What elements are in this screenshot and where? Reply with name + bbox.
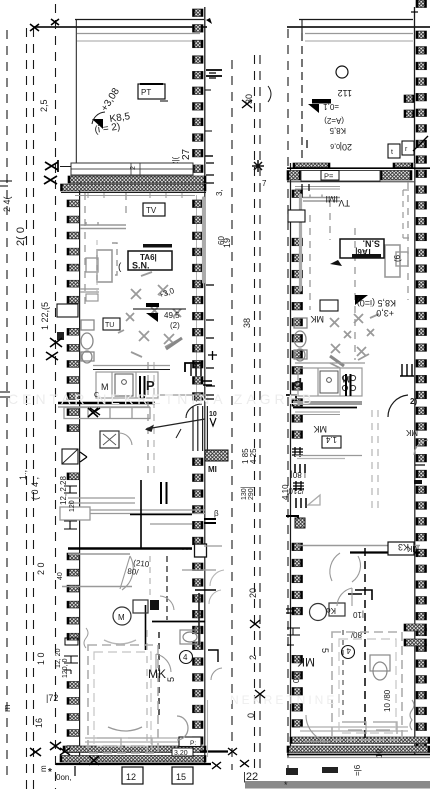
L curtain marks: [84, 628, 88, 648]
svg-text:=0,1: =0,1: [323, 102, 339, 111]
right dark mark: [414, 480, 422, 484]
L kitchen top line: [93, 365, 170, 367]
L east wall inner gray: [196, 195, 198, 402]
svg-text:PT: PT: [141, 88, 151, 97]
L top wall line: [60, 166, 71, 168]
svg-text:0: 0: [246, 713, 256, 718]
svg-text:2: 2: [130, 166, 137, 170]
L washing machine: [100, 431, 119, 448]
svg-text:1,0: 1,0: [291, 672, 300, 684]
svg-text:120: 120: [69, 500, 76, 512]
svg-text:2( 0: 2( 0: [15, 227, 27, 246]
L hall vline dark: [140, 480, 142, 548]
R stairs hash 2: [293, 481, 304, 491]
R stairs treads 1: [295, 464, 305, 473]
mid paren: [268, 86, 271, 102]
R west wall bracket: [286, 395, 296, 401]
L hall door bars: [161, 482, 167, 504]
svg-text:MK: MK: [311, 314, 325, 324]
svg-text:+3,0: +3,0: [376, 308, 394, 318]
east eq thick: [204, 519, 216, 523]
R bed dash dark: [342, 630, 344, 716]
right tick 465: [415, 464, 425, 466]
R top box t1: [388, 144, 400, 158]
svg-text:2,5: 2,5: [39, 99, 49, 112]
L bed outline: [88, 645, 158, 753]
terrace R bar: [312, 99, 331, 104]
terrace L tick 2: [206, 18, 212, 24]
terrace R inner blocks: [404, 95, 415, 118]
R bath corner: [348, 590, 372, 600]
terrace L top line: [75, 19, 204, 21]
L partition kitchen dark: [58, 402, 155, 404]
svg-text:=|6: =|6: [353, 764, 362, 776]
svg-text:15: 15: [176, 772, 186, 782]
L kitchen lower X: [88, 408, 98, 417]
svg-text:10: 10: [375, 749, 384, 758]
L partition bath: [152, 621, 205, 623]
svg-text:MK: MK: [314, 424, 328, 434]
L tv cabinet: [86, 294, 98, 301]
L interior dash 3: [147, 362, 149, 478]
L side table: [86, 258, 98, 272]
east ticks upper: [206, 163, 215, 386]
L kitchen dark bars: [140, 376, 145, 398]
R east wall wide blocks: [404, 624, 427, 646]
bottom blob 1: [286, 768, 298, 775]
bottom box 15: [172, 767, 193, 784]
R dining diag thick: [330, 356, 344, 366]
terrace R gray line 1: [305, 33, 413, 35]
L wc black stub: [57, 332, 64, 340]
svg-text:20|: 20|: [340, 142, 352, 152]
svg-text:4: 4: [346, 646, 351, 655]
R room arrow: [330, 260, 342, 266]
L kitchen sink: [115, 374, 133, 396]
L dining diag thick: [166, 338, 182, 349]
L west wall door marks hall: [63, 486, 77, 529]
svg-text:m: m: [2, 705, 12, 713]
terrace R tick: [411, 11, 418, 13]
L east wall dark line low: [195, 589, 216, 591]
dim line mid2a: [254, 55, 256, 775]
mid arrow 30: [242, 100, 252, 108]
L kitchen counter: [96, 372, 158, 398]
svg-text:12: 12: [126, 772, 136, 782]
L wc fixtures: [81, 320, 94, 363]
L sofa dashed outline: [112, 243, 117, 275]
L bed pillows: [97, 738, 152, 750]
L bedroom chair arc: [177, 716, 188, 740]
svg-text:2 4(: 2 4(: [2, 196, 12, 212]
svg-text:IMI: IMI: [326, 194, 339, 204]
L door frame bars: [191, 364, 201, 376]
R stairs treads 2: [296, 498, 306, 508]
L door label: [127, 558, 150, 578]
L radiator right: [198, 593, 200, 645]
L stairs curve: [186, 404, 202, 418]
east arc 592: [209, 590, 221, 604]
svg-text:1 22,(5: 1 22,(5: [40, 302, 50, 330]
east tick plus: [208, 351, 217, 360]
L west wall face line: [79, 176, 81, 763]
svg-text:120, 0: 120, 0: [62, 658, 69, 678]
L hall door swing: [120, 556, 133, 590]
east bracket 650: [208, 650, 218, 662]
svg-text:2): 2): [410, 397, 417, 406]
R thick bar: [352, 254, 381, 258]
svg-text:1.4: 1.4: [325, 435, 337, 444]
svg-text:K8,5: K8,5: [329, 126, 346, 135]
svg-text:*: *: [284, 780, 288, 789]
L stairs arrow head: [145, 425, 154, 433]
svg-text:4: 4: [183, 653, 188, 662]
svg-text:4,10: 4,10: [281, 484, 290, 500]
L partition hall mid dark: [130, 514, 192, 516]
svg-text:12, 2,28: 12, 2,28: [59, 476, 68, 505]
svg-text:TU: TU: [105, 322, 114, 329]
L hall gray lines wide: [68, 510, 205, 514]
dim line mid1: [231, 60, 233, 770]
svg-text:m: m: [39, 765, 48, 772]
svg-text:(6: (6: [393, 254, 402, 262]
R wc fixtures: [294, 318, 307, 361]
L dining chairs: [118, 272, 181, 357]
R partition hall dark: [350, 551, 420, 553]
L bath2 fixture right: [180, 630, 200, 644]
R bed pillows: [342, 722, 397, 734]
svg-text:10 /80: 10 /80: [383, 689, 392, 712]
L window band midline: [71, 168, 193, 170]
svg-text:*: *: [48, 767, 52, 778]
L east wall face line: [204, 176, 206, 763]
R top wall bottom line: [287, 181, 414, 183]
R bath circle: [310, 604, 327, 621]
L table line: [133, 308, 186, 310]
L bed head curve: [104, 640, 136, 644]
L thick bar: [143, 244, 172, 248]
L bottom window band: [85, 738, 200, 742]
L rug lines: [80, 289, 99, 292]
L dining texts: [158, 286, 181, 330]
L dash stub: [96, 240, 98, 300]
R kitchen stove circles: [342, 375, 355, 390]
L west wall window marks bed: [64, 638, 78, 674]
terrace R gray line 2: [305, 40, 413, 42]
R partition kitchen gray2: [295, 412, 340, 415]
svg-text:20: 20: [248, 588, 258, 598]
R top tick: [306, 140, 308, 148]
R interior dash a: [309, 215, 311, 310]
R interior dash d: [407, 182, 409, 300]
L bedroom door arc: [156, 654, 171, 673]
svg-text:Ko: Ko: [326, 606, 336, 615]
L bath2 door hinge: [150, 600, 159, 610]
terrace L east wall blocks: [193, 9, 204, 173]
R top P= box: [321, 171, 339, 181]
R level wedge: [355, 295, 368, 305]
margin arrows 178: [44, 176, 57, 184]
dim line C: [55, 4, 57, 789]
R terrace door arc: [304, 715, 330, 742]
R top wall hatch B1: [287, 171, 301, 181]
svg-text:P=: P=: [324, 172, 334, 181]
R window sill ticks: [302, 184, 309, 191]
svg-text:| 80|: | 80|: [291, 470, 306, 479]
svg-text:38: 38: [242, 318, 252, 328]
terrace R west edge dashed: [301, 33, 303, 160]
R east wall face line: [414, 163, 416, 755]
R bottom wall dark line: [287, 754, 430, 756]
L window band: [71, 163, 193, 175]
right door frame bars: [400, 364, 414, 376]
svg-text:S.N.: S.N.: [362, 239, 380, 249]
L partition hall mid gray: [150, 523, 192, 525]
L bath2 wm circle: [113, 607, 131, 625]
dim line B1: [26, 28, 28, 789]
R kitchen sink dot: [327, 378, 332, 383]
R top window band: [301, 171, 380, 182]
east tick eq: [206, 395, 214, 399]
svg-text:60: 60: [217, 236, 226, 245]
L partition hall gray: [68, 553, 130, 555]
dim line A: [6, 30, 8, 782]
R interior dash b: [329, 200, 331, 240]
R west wall marks bed: [287, 628, 300, 645]
R armchair: [385, 245, 400, 277]
bottom arrows mid: [212, 748, 249, 769]
L partition bath v: [145, 605, 147, 650]
terrace R wedge: [308, 104, 319, 113]
svg-text:M: M: [118, 613, 125, 622]
L interior dash 2: [125, 193, 127, 218]
R bottom window band: [300, 727, 408, 731]
margin tick 390: [0, 392, 10, 397]
svg-text:|72: |72: [46, 693, 58, 703]
R bottom wall hatch 2: [287, 746, 430, 753]
R kitchen sink: [320, 371, 338, 393]
terrace L tick 3: [209, 73, 216, 78]
svg-text:4 25: 4 25: [249, 448, 258, 464]
terrace R east wall line: [414, 7, 416, 163]
svg-text:112: 112: [338, 88, 352, 98]
R stairs gray tri: [308, 495, 320, 505]
L west wall blocks: [67, 200, 79, 753]
svg-text:10: 10: [209, 411, 217, 418]
L interior dash bed gray: [146, 630, 148, 752]
svg-text:NEKRETNINE: NEKRETNINE: [230, 693, 337, 707]
east gray vline: [207, 700, 209, 757]
bottom gray bar: [245, 781, 430, 789]
R top box t2: [402, 141, 414, 155]
svg-text:16: 16: [34, 718, 44, 728]
svg-text:80/: 80/: [127, 567, 140, 577]
R bath box: [329, 603, 345, 616]
L dining wedge: [146, 313, 158, 322]
R interior dash e: [371, 410, 373, 510]
bottom tick 1: [74, 766, 76, 776]
R partition kitchen grayband: [293, 401, 362, 405]
L east wall blocks: [193, 200, 204, 744]
L stairs treads: [193, 406, 207, 451]
R hall door arcs: [330, 553, 361, 582]
R west wall window box: [288, 210, 305, 222]
L bottom wall hatch 1: [63, 746, 206, 753]
svg-text:MK: MK: [297, 655, 315, 669]
svg-text:5: 5: [166, 677, 176, 682]
svg-text:CENTAR NEKRETNINA ZAGREB: CENTAR NEKRETNINA ZAGREB: [8, 391, 315, 407]
L east wall shaft dots: [182, 548, 192, 550]
svg-text:MK: MK: [405, 428, 418, 437]
R west wall pipe: [299, 195, 302, 290]
L east wall dark landing: [205, 450, 228, 461]
terrace L east wall line: [204, 7, 206, 176]
svg-text:( 0 4 ,: ( 0 4 ,: [30, 477, 40, 500]
terrace R east wall blocks: [416, 0, 427, 163]
svg-text:12, 20: 12, 20: [55, 648, 62, 668]
L hall gray lines up: [68, 498, 135, 503]
R top wall dark line: [287, 167, 430, 169]
svg-text:P: P: [293, 375, 302, 390]
mid tick 70: [206, 70, 222, 76]
east arrow down: [210, 418, 216, 426]
L armchair: [97, 250, 112, 282]
svg-text:M: M: [343, 374, 351, 384]
L east wall gray line low: [182, 569, 216, 571]
L top wall bottom line: [61, 192, 206, 194]
R sofa lines: [303, 195, 340, 202]
R door label 80210: [288, 470, 306, 495]
east gray 546: [204, 545, 222, 547]
R kitchen top line: [295, 362, 365, 364]
right dash bracket: [403, 190, 412, 238]
bottom box 12: [122, 767, 143, 784]
terrace L tick 5: [205, 89, 211, 91]
R level text: [357, 298, 396, 318]
margin cluster2: [55, 648, 69, 678]
terrace R eave line: [287, 26, 430, 28]
L circled 4: [180, 651, 193, 664]
svg-text:TV: TV: [146, 206, 157, 215]
R interior dash c: [354, 228, 356, 360]
L bath2 box: [133, 600, 148, 613]
svg-text:49,5: 49,5: [164, 311, 180, 320]
terrace L tick 1: [205, 155, 213, 157]
svg-text:(A=2): (A=2): [324, 116, 344, 125]
L bath2 arc: [160, 596, 174, 610]
right arc big: [388, 395, 408, 417]
R circled 4: [342, 646, 355, 659]
L east wall gray pipe: [202, 198, 205, 282]
svg-text:P:: P:: [190, 740, 196, 747]
terrace R circled num: [336, 66, 348, 78]
L partition kitchen gray: [58, 406, 150, 408]
L interior dash 5: [166, 556, 168, 620]
L kitchen lower row: [64, 408, 150, 419]
R bottom wall hatch 1: [290, 737, 430, 744]
L bed bench: [108, 727, 142, 731]
margin arrows mid: [46, 338, 62, 360]
svg-text:|22: |22: [243, 771, 258, 783]
svg-text:40: 40: [57, 572, 64, 580]
svg-text:0on,: 0on,: [56, 773, 72, 782]
svg-text:2 0: 2 0: [36, 562, 46, 575]
R K3 box: [388, 542, 414, 555]
svg-text:3,: 3,: [215, 189, 224, 196]
svg-text:MK: MK: [406, 544, 419, 553]
L west wall door box: [62, 449, 87, 464]
terrace L gray line 1: [77, 33, 200, 35]
R label room box: [340, 239, 384, 259]
R partition kitchen dark: [293, 407, 357, 409]
R interior dash f: [377, 410, 379, 510]
east arc 575: [210, 570, 224, 586]
terrace L tick 4: [205, 130, 212, 132]
R window sill line: [295, 187, 340, 190]
mid cluster: [252, 160, 264, 172]
R MK box: [320, 300, 338, 311]
R curtain marks: [410, 700, 414, 730]
margin arrows low: [90, 408, 100, 415]
L partition hall dark: [68, 547, 192, 549]
R bedroom door arc: [337, 588, 352, 606]
svg-text:1.,: 1.,: [18, 470, 28, 480]
R bed outline: [332, 632, 402, 740]
svg-text:S.N.: S.N.: [132, 261, 150, 271]
L kitchen sink dot: [122, 380, 127, 385]
L bottom 320 box: [172, 748, 193, 757]
svg-text:K8,5 (i=0): K8,5 (i=0): [357, 298, 396, 308]
L wm arc: [119, 433, 132, 445]
L stairs arrow: [146, 419, 205, 429]
R hall vline: [364, 548, 366, 740]
R top wall hatch A2: [393, 163, 413, 168]
svg-text:130|: 130|: [241, 486, 248, 500]
L door frame bracket: [185, 363, 201, 372]
margin arrows 165: [45, 160, 58, 172]
dim arrow tl1: [30, 19, 59, 31]
L sofa lines: [80, 222, 126, 229]
R stairs gray line2: [297, 458, 345, 460]
L top wall hatch A: [68, 176, 206, 183]
L interior dash bed dark: [158, 632, 160, 718]
R label 14 box: [322, 435, 341, 448]
L bottom wall dark stub: [200, 750, 228, 752]
svg-text:(2): (2): [170, 321, 180, 330]
L label TU box: [103, 318, 120, 330]
svg-text:0,6: 0,6: [330, 142, 340, 149]
L bed inner: [94, 652, 151, 746]
margin arrows bottom2: [60, 748, 70, 755]
R stairs hash 1: [292, 447, 303, 457]
terrace R top line: [299, 19, 413, 21]
margin tick tl: [0, 181, 12, 186]
P label box terrace L: [138, 84, 168, 101]
R west wall blocks: [292, 190, 303, 727]
L interior dash 4: [153, 362, 155, 478]
L top wall hatch B: [61, 184, 207, 191]
L door frame eq: [203, 381, 212, 385]
svg-text:1 0: 1 0: [36, 652, 46, 665]
L table black bar: [146, 303, 159, 307]
svg-text:5: 5: [320, 648, 330, 653]
R bottom gray line: [287, 757, 430, 759]
L bottom wall dark line: [56, 763, 211, 765]
R gray box: [396, 252, 408, 266]
R top wall hatch A1: [293, 163, 330, 168]
L interior dash 1: [84, 193, 86, 310]
bottom blob 2: [322, 767, 338, 773]
